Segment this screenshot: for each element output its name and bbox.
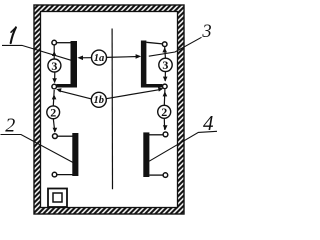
svg-text:1b: 1b bbox=[94, 95, 105, 106]
svg-text:2: 2 bbox=[50, 105, 56, 119]
svg-text:2: 2 bbox=[5, 115, 15, 137]
svg-text:3: 3 bbox=[162, 58, 168, 72]
svg-text:1a: 1a bbox=[94, 53, 105, 64]
svg-text:3: 3 bbox=[51, 59, 57, 73]
svg-text:3: 3 bbox=[201, 22, 211, 42]
svg-text:2: 2 bbox=[161, 105, 167, 119]
svg-text:4: 4 bbox=[203, 111, 214, 135]
